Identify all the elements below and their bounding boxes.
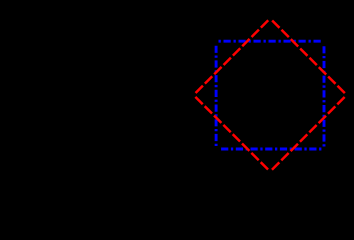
blue dash-dot square, left edge bbox=[215, 41, 218, 149]
blue dash-dot square, top edge bbox=[216, 40, 324, 43]
red dashed rotated square, upper-right edge bbox=[270, 18, 347, 95]
red dashed rotated square, lower-left edge bbox=[194, 95, 271, 172]
blue dash-dot square, right edge bbox=[323, 41, 326, 149]
red dashed rotated square, lower-right edge bbox=[270, 95, 347, 172]
red dashed rotated square, upper-left edge bbox=[194, 18, 271, 95]
blue dash-dot square, bottom edge bbox=[216, 148, 324, 151]
